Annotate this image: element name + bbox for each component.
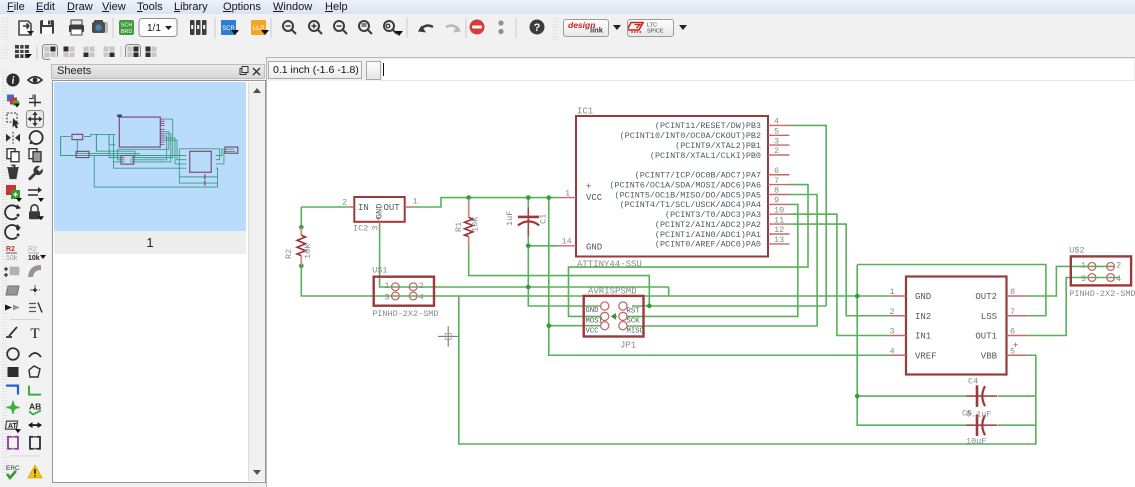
wire LSS loop	[857, 265, 1046, 316]
print icon	[69, 20, 84, 35]
driver left pin stub	[890, 335, 906, 337]
svg-text:2: 2	[419, 281, 424, 291]
svg-text:IN1: IN1	[915, 332, 931, 342]
wire R1 bottom to RST junction	[469, 240, 650, 306]
svg-text:12: 12	[774, 225, 784, 235]
svg-text:6: 6	[1010, 327, 1015, 337]
junction	[547, 323, 552, 328]
IC1 right pin stub	[768, 134, 790, 136]
junction	[299, 225, 304, 230]
svg-text:MOSI: MOSI	[586, 318, 603, 326]
svg-text:(PCINT11/RESET/DW)PB3: (PCINT11/RESET/DW)PB3	[655, 122, 761, 131]
svg-text:GND: GND	[915, 292, 931, 302]
connector U$1 PINHD-2X2-SMD	[374, 277, 434, 306]
IC1 right pin stub	[768, 233, 790, 235]
svg-text:3: 3	[1081, 274, 1086, 284]
svg-text:2: 2	[890, 307, 895, 317]
IC1 right pin stub	[768, 223, 790, 225]
driver left pin stub	[890, 354, 906, 356]
dots	[498, 20, 503, 25]
layers icon	[190, 20, 207, 35]
design link button	[563, 19, 609, 37]
grid icon	[15, 45, 32, 58]
junction	[299, 263, 304, 268]
svg-text:(PCINT10/INT0/OC0A/CKOUT)PB2: (PCINT10/INT0/OC0A/CKOUT)PB2	[620, 132, 762, 141]
svg-text:C4: C4	[968, 377, 978, 387]
wire rail to C1	[527, 198, 529, 208]
connector U$2 PINHD-2X2-SMD	[1071, 256, 1131, 285]
resistor R2	[300, 227, 302, 265]
wire OUT1 to U$2 row 2	[1028, 278, 1120, 336]
motor driver IC U3	[906, 277, 1007, 375]
op-amp/mcu IC1 ATTINY44-SSU	[576, 116, 768, 257]
svg-text:(PCINT5/OC1B/MISO/DO/ADC5)PA5: (PCINT5/OC1B/MISO/DO/ADC5)PA5	[615, 191, 762, 200]
wire to IC1 GND pin 14	[528, 245, 558, 247]
IC1 pin 1 stub	[559, 197, 577, 199]
svg-text:8: 8	[1010, 287, 1015, 297]
svg-text:C1: C1	[539, 214, 549, 224]
svg-text:8: 8	[774, 186, 779, 196]
wire GND down to JP1 GND	[528, 246, 601, 306]
svg-text:(PCINT3/T0/ADC3)PA3: (PCINT3/T0/ADC3)PA3	[665, 211, 761, 220]
stop	[470, 20, 485, 35]
svg-text:5: 5	[774, 127, 779, 137]
svg-text:4: 4	[419, 293, 424, 303]
svg-text:2: 2	[342, 198, 347, 208]
wire PA2 to IN2	[790, 224, 891, 316]
svg-text:10K: 10K	[303, 243, 313, 259]
driver right pin stub	[1007, 354, 1028, 356]
svg-text:VCC: VCC	[586, 193, 603, 203]
ULP icon	[251, 20, 269, 35]
svg-text:3: 3	[890, 327, 895, 337]
svg-text:(PCINT4/T1/SCL/USCK/ADC4)PA4: (PCINT4/T1/SCL/USCK/ADC4)PA4	[620, 201, 762, 210]
wire IC2 OUT to VCC rail	[412, 198, 559, 207]
LTC SPICE button	[627, 19, 674, 37]
svg-text:R1: R1	[454, 222, 464, 232]
svg-text:11: 11	[774, 215, 784, 225]
svg-text:(PCINT9/XTAL2)PB1: (PCINT9/XTAL2)PB1	[675, 142, 761, 151]
svg-text:10K: 10K	[471, 216, 481, 232]
driver right pin stub	[1007, 315, 1028, 317]
junction	[647, 304, 652, 309]
wire to C4	[857, 395, 966, 397]
svg-text:(PCINT1/AIN0/ADC1)PA1: (PCINT1/AIN0/ADC1)PA1	[655, 231, 761, 240]
open icon	[19, 21, 34, 35]
redo	[446, 26, 459, 30]
cursor crosshair	[438, 326, 459, 347]
wire LSS/GND riser down to C5	[857, 265, 966, 426]
svg-text:SCK: SCK	[627, 318, 641, 326]
wire GND run to driver GND pin 1	[644, 295, 891, 297]
svg-text:0.1uF: 0.1uF	[966, 410, 992, 420]
svg-text:R2: R2	[284, 249, 294, 259]
svg-text:U$1: U$1	[372, 266, 387, 276]
svg-text:OUT: OUT	[384, 203, 401, 213]
svg-text:PINHD-2X2-SMD: PINHD-2X2-SMD	[372, 309, 438, 319]
toolbar row 1	[0, 14, 1135, 44]
svg-text:7: 7	[774, 176, 779, 186]
wire OUT2 to U$2 row 1	[1028, 266, 1115, 296]
wire R2 bottom rail through U$1	[301, 266, 583, 296]
junction	[855, 294, 860, 299]
svg-text:VREF: VREF	[915, 351, 937, 361]
SCH/BRD icon	[119, 20, 134, 35]
svg-text:VBB: VBB	[981, 351, 998, 361]
wire R2/IN to IC2 pin 2	[301, 206, 348, 208]
svg-text:4: 4	[1116, 274, 1121, 284]
junction	[526, 244, 531, 249]
IC2 pin 1 stub	[405, 206, 412, 208]
svg-text:OUT2: OUT2	[975, 292, 997, 302]
junction	[526, 195, 531, 200]
junction	[466, 195, 471, 200]
svg-text:3: 3	[371, 225, 381, 230]
menu bar	[0, 0, 1135, 14]
svg-text:AVRISPSMD: AVRISPSMD	[588, 287, 637, 297]
wire RST row	[632, 305, 826, 307]
svg-text:PINHD-2X2-SMD: PINHD-2X2-SMD	[1069, 289, 1135, 299]
svg-text:+: +	[586, 182, 591, 192]
svg-text:9: 9	[774, 196, 779, 206]
svg-text:+: +	[376, 216, 380, 224]
wire C4 to VBB riser	[998, 395, 1036, 397]
wire IC2 GND to U$1 row / GND bus	[380, 228, 669, 287]
svg-text:RST: RST	[627, 308, 641, 316]
svg-text:1: 1	[413, 197, 418, 207]
svg-text:(PCINT6/OC1A/SDA/MOSI/ADC6)PA6: (PCINT6/OC1A/SDA/MOSI/ADC6)PA6	[610, 181, 762, 190]
IC1 right pin stub	[768, 154, 790, 156]
IC1 right pin stub	[768, 174, 790, 176]
IC1 right pin stub	[768, 144, 790, 146]
op-amp/regulator IC2	[354, 197, 404, 222]
junction	[526, 285, 531, 290]
svg-text:U$2: U$2	[1069, 245, 1084, 255]
wire SCK pin9 to JP1	[627, 204, 798, 316]
svg-text:+: +	[1013, 341, 1018, 351]
svg-text:GND: GND	[586, 307, 599, 315]
wire C5 to VBB riser	[998, 424, 1036, 426]
svg-text:IN: IN	[358, 203, 369, 213]
IC1 right pin stub	[768, 194, 790, 196]
junction	[855, 394, 860, 399]
wire C1 bottom	[527, 236, 529, 246]
svg-text:2: 2	[774, 146, 779, 156]
wire RST riser to IC1 pin 4	[790, 125, 827, 306]
wire VCC riser to VREF	[549, 198, 890, 356]
IC1 right pin stub	[768, 124, 790, 126]
junction	[547, 195, 552, 200]
svg-text:VCC: VCC	[586, 328, 600, 336]
svg-text:(PCINT0/AREF/ADC0)PA0: (PCINT0/AREF/ADC0)PA0	[655, 241, 761, 250]
canvas coordinate bar	[267, 57, 1135, 81]
driver left pin stub	[890, 295, 906, 297]
undo	[420, 26, 433, 30]
driver left pin stub	[890, 315, 906, 317]
wire VBB bottom rail	[459, 296, 1036, 444]
svg-text:3: 3	[774, 136, 779, 146]
save icon	[40, 20, 54, 34]
1/1 combo	[139, 19, 177, 37]
IC2 pin 3 stub	[379, 222, 381, 228]
wire MOSI pin7 to JP1	[569, 185, 809, 317]
help	[530, 20, 545, 35]
capacitor C5	[966, 424, 997, 426]
wire VCC to JP1 VCC	[549, 325, 601, 327]
svg-text:(PCINT2/AIN1/ADC2)PA2: (PCINT2/AIN1/ADC2)PA2	[655, 221, 761, 230]
wire rail to R1	[468, 198, 470, 199]
svg-text:13: 13	[774, 235, 784, 245]
svg-text:1: 1	[890, 287, 895, 297]
svg-text:10uF: 10uF	[966, 437, 986, 447]
svg-text:3: 3	[384, 293, 389, 303]
svg-text:1: 1	[565, 189, 570, 199]
svg-text:IC2: IC2	[353, 224, 368, 234]
wire MISO pin8 to JP1	[627, 195, 817, 327]
sheets panel	[50, 57, 267, 487]
svg-text:1: 1	[1081, 260, 1086, 270]
driver right pin stub	[1007, 335, 1028, 337]
svg-text:OUT1: OUT1	[975, 332, 997, 342]
connector JP1 AVRISPSMD	[584, 296, 644, 337]
svg-text:MISO: MISO	[627, 328, 644, 336]
svg-text:GND: GND	[586, 243, 602, 253]
svg-text:LSS: LSS	[981, 312, 997, 322]
svg-text:JP1: JP1	[620, 341, 636, 351]
quadrant icons	[43, 45, 157, 61]
SCR icon	[221, 20, 239, 35]
svg-text:1: 1	[384, 281, 389, 291]
left tool palette	[0, 62, 50, 487]
svg-text:4: 4	[890, 346, 895, 356]
IC1 right pin stub	[768, 213, 790, 215]
svg-text:(PCINT8/XTAL1/CLKI)PB0: (PCINT8/XTAL1/CLKI)PB0	[650, 152, 761, 161]
svg-text:14: 14	[562, 236, 572, 246]
wire PA3 to IN1	[790, 214, 891, 335]
capacitor C1	[527, 208, 529, 236]
svg-text:10: 10	[774, 205, 784, 215]
IC2 pin 2 stub	[348, 206, 354, 208]
IC1 pin 14 stub	[559, 245, 577, 247]
svg-text:IN2: IN2	[915, 312, 931, 322]
svg-text:IC1: IC1	[577, 107, 593, 117]
IC1 right pin stub	[768, 243, 790, 245]
svg-text:(PCINT7/ICP/OC0B/ADC7)PA7: (PCINT7/ICP/OC0B/ADC7)PA7	[635, 172, 761, 181]
svg-text:4: 4	[774, 117, 779, 127]
toolbar row 2	[0, 44, 1135, 63]
svg-text:6: 6	[774, 166, 779, 176]
svg-text:2: 2	[1116, 260, 1121, 270]
driver right pin stub	[1007, 295, 1028, 297]
IC1 right pin stub	[768, 203, 790, 205]
wire down to R2 top	[300, 207, 302, 227]
IC1 right pin stub	[768, 184, 790, 186]
svg-text:1uF: 1uF	[505, 211, 515, 226]
svg-text:ATTINY44-SSU: ATTINY44-SSU	[577, 260, 642, 270]
capacitor C4	[966, 395, 997, 397]
image/camera icon	[92, 20, 108, 33]
resistor R1	[468, 199, 470, 246]
svg-text:7: 7	[1010, 307, 1015, 317]
zoom icons	[283, 21, 403, 36]
wire GND jog	[668, 287, 670, 296]
